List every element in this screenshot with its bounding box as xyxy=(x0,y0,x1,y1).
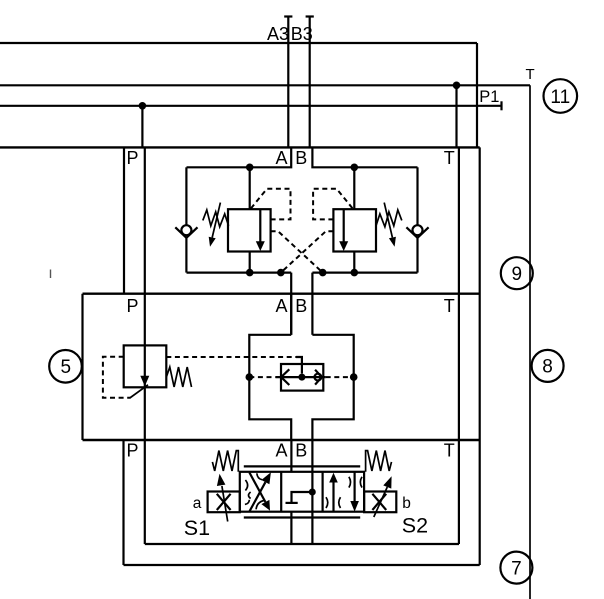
svg-text:P: P xyxy=(127,441,139,461)
shuttle valve body xyxy=(276,364,326,391)
pressure line P through sections xyxy=(144,147,146,544)
svg-text:b: b xyxy=(402,495,411,512)
svg-text:A3: A3 xyxy=(267,24,289,44)
relief valve left adjust arrow xyxy=(209,203,221,247)
relief valve 5 pilot dashed box xyxy=(103,357,131,398)
svg-text:a: a xyxy=(193,495,202,512)
node B center xyxy=(309,489,316,496)
line B3 vertical xyxy=(306,17,314,148)
wire B loop section2 xyxy=(312,335,353,440)
relief valve 5 body xyxy=(124,345,167,387)
wire A loop section2 xyxy=(249,335,291,440)
dashed link shuttle to B xyxy=(326,376,354,378)
proportional rail top xyxy=(244,465,360,467)
check valve left xyxy=(175,225,197,238)
svg-text:B: B xyxy=(295,296,307,316)
wire A tank stub below valve xyxy=(290,512,292,544)
wire B port section3 through valve xyxy=(311,440,313,544)
balloon 11 xyxy=(544,79,578,113)
section 3 outer left edge xyxy=(122,440,124,565)
line A3 vertical xyxy=(284,17,292,148)
section boundary 2 xyxy=(83,293,480,295)
node P branch xyxy=(139,102,147,110)
line P1 horizontal xyxy=(0,101,502,110)
relief valve right adjust arrow xyxy=(384,203,396,247)
relief valve right spring xyxy=(376,210,402,227)
balloon 8 xyxy=(532,350,564,382)
section 2 left edge xyxy=(81,294,83,440)
svg-text:P: P xyxy=(127,296,139,316)
node B cross xyxy=(319,269,327,277)
relief valve 5 adjust diagonal xyxy=(130,385,148,398)
spool box b up arrow xyxy=(329,473,338,512)
wire T branch down xyxy=(455,85,457,147)
balloon 7 xyxy=(500,552,532,584)
shuttle valve pilot node xyxy=(298,374,305,381)
relief valve right body xyxy=(333,209,376,251)
assembly right edge xyxy=(479,147,481,565)
wire A down section2 xyxy=(290,294,292,335)
svg-text:S1: S1 xyxy=(184,516,210,540)
cross line left to B dashed xyxy=(271,231,323,272)
svg-text:5: 5 xyxy=(61,357,72,378)
node A bottom xyxy=(246,269,254,277)
wire A port section3 xyxy=(290,440,292,472)
spool box center blocked port xyxy=(286,492,313,503)
node B top xyxy=(351,164,359,172)
node A top xyxy=(246,164,254,172)
wire B down to section2 xyxy=(311,273,313,335)
proportional rail bottom xyxy=(244,516,360,518)
relief valve left pilot dashed xyxy=(251,189,291,220)
svg-text:11: 11 xyxy=(550,87,570,108)
spring left section3 xyxy=(212,451,238,472)
wire B port section1 xyxy=(312,147,417,167)
spool box b down arrow xyxy=(350,472,359,512)
assembly bottom edge xyxy=(124,564,480,566)
wire frame left section1 xyxy=(185,167,187,272)
tank line T through sections xyxy=(458,147,460,544)
spool box a crossed arrow 1 xyxy=(249,472,271,511)
cross line right to A dashed xyxy=(281,231,334,272)
wire bottom left section1 xyxy=(187,272,292,274)
tank line T horizontal xyxy=(0,84,530,86)
node T branch xyxy=(453,82,461,90)
svg-text:T: T xyxy=(444,148,455,168)
shuttle valve check ball xyxy=(315,370,322,385)
svg-text:T: T xyxy=(526,66,535,83)
svg-text:S2: S2 xyxy=(402,513,428,537)
balloon 5 xyxy=(49,350,82,383)
svg-text:8: 8 xyxy=(542,357,553,378)
stray tick mark xyxy=(50,270,52,279)
node B shuttle xyxy=(350,373,358,381)
wire P branch down xyxy=(141,106,143,148)
section boundary 3 xyxy=(83,439,480,441)
top manifold right edge xyxy=(476,43,478,147)
relief valve right connections xyxy=(353,167,355,272)
check valve right xyxy=(406,225,428,238)
spool box a crossed arrow 2 xyxy=(249,473,270,511)
relief valve left connections xyxy=(249,167,251,272)
spring right section3 xyxy=(366,451,392,472)
solenoid a box xyxy=(208,492,240,513)
top manifold upper line xyxy=(0,42,477,44)
section 3 inner bottom edge xyxy=(145,543,459,545)
relief valve 5 spring xyxy=(166,367,191,387)
node A shuttle xyxy=(246,373,254,381)
svg-text:A: A xyxy=(276,296,288,316)
shuttle valve left arrow xyxy=(281,369,289,385)
svg-text:A: A xyxy=(276,441,288,461)
wire frame right section1 xyxy=(416,167,418,272)
solenoid b proportional arrow xyxy=(374,476,392,517)
spool box b throttle arcs xyxy=(326,477,362,508)
solenoid a proportional arrow xyxy=(217,474,228,522)
svg-text:T: T xyxy=(444,441,455,461)
balloon 9 xyxy=(501,257,533,289)
solenoid b box xyxy=(364,492,396,513)
tank drop line right xyxy=(529,85,531,599)
wire bottom right section1 xyxy=(312,272,417,274)
spool box a throttle arcs xyxy=(245,473,264,509)
relief valve left spring xyxy=(203,210,229,227)
svg-text:A: A xyxy=(276,148,288,168)
relief valve left body xyxy=(228,209,271,251)
section boundary 1 xyxy=(0,146,480,148)
svg-text:T: T xyxy=(444,296,455,316)
relief valve right pilot dashed xyxy=(313,189,353,220)
svg-text:B3: B3 xyxy=(291,24,313,44)
svg-text:B: B xyxy=(295,441,307,461)
node A cross xyxy=(277,269,285,277)
dashed link A to shuttle xyxy=(249,376,275,378)
svg-text:9: 9 xyxy=(512,264,523,285)
directional valve body xyxy=(240,472,364,512)
svg-text:P1: P1 xyxy=(479,88,499,106)
node B bottom xyxy=(351,269,359,277)
svg-text:7: 7 xyxy=(511,558,522,579)
pilot line valve5 to shuttle dashed xyxy=(166,357,302,374)
wire A port section1 xyxy=(187,147,292,167)
section 1 left edge xyxy=(123,147,125,293)
svg-text:P: P xyxy=(127,148,139,168)
wire A down to section2 xyxy=(290,273,292,335)
svg-text:B: B xyxy=(295,148,307,168)
